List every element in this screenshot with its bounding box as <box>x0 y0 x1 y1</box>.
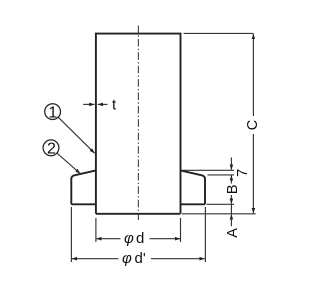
dimension B <box>230 175 232 183</box>
dimension phi d <box>96 238 120 240</box>
extension line tube left below <box>95 218 97 242</box>
extension line flange bottom right <box>207 203 235 205</box>
svg-text:1: 1 <box>48 104 57 121</box>
leader 1 <box>58 117 94 153</box>
leader 2 <box>57 153 80 174</box>
svg-text:φ: φ <box>122 250 132 267</box>
extension line slant top <box>182 169 234 171</box>
extension line flange left below <box>70 207 72 262</box>
balloon 2 <box>43 140 59 156</box>
tube body outline <box>96 34 181 214</box>
tube bottom edge <box>96 213 181 215</box>
extension line tube right below <box>180 218 182 242</box>
svg-text:7: 7 <box>235 169 251 177</box>
dimension t <box>83 103 94 105</box>
right flange outline <box>181 170 206 204</box>
svg-text:d': d' <box>135 250 146 267</box>
extension line top right <box>184 32 254 34</box>
svg-text:2: 2 <box>47 141 56 158</box>
extension line corner level <box>208 174 235 176</box>
dimension phi d' <box>72 258 119 260</box>
svg-text:d: d <box>136 230 144 247</box>
svg-text:B: B <box>225 184 241 194</box>
svg-text:C: C <box>245 120 261 130</box>
extension line tube bottom right <box>182 213 256 215</box>
dimension A <box>230 204 232 214</box>
svg-text:φ: φ <box>124 230 134 247</box>
svg-text:A: A <box>225 228 241 238</box>
dimension 7 <box>230 158 232 170</box>
balloon 1 <box>45 104 61 120</box>
left flange outline <box>71 170 96 204</box>
svg-text:t: t <box>112 96 117 113</box>
extension line flange right below <box>204 207 206 262</box>
centerline <box>137 26 139 221</box>
dimension C <box>252 34 254 116</box>
